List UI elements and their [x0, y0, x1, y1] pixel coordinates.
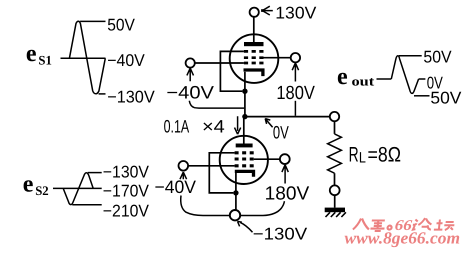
svg-text:0V: 0V	[273, 123, 289, 143]
waveform e_S1	[26, 16, 155, 107]
svg-text:−130V: −130V	[107, 88, 155, 107]
terminal -130V supply (top)	[250, 8, 259, 17]
svg-text:=8Ω: =8Ω	[368, 144, 402, 167]
svg-text:180V: 180V	[276, 83, 315, 104]
V1 plate	[244, 42, 264, 46]
ground	[325, 208, 346, 217]
wire V1 g3 tie to cathode	[220, 51, 244, 91]
wire V1 cathode to output node	[244, 91, 246, 116]
wire output node to RL terminal	[245, 116, 330, 118]
svg-text:e: e	[23, 172, 34, 198]
label -130V (bottom) with arrow	[238, 221, 308, 243]
svg-text:130V: 130V	[275, 4, 317, 23]
svg-text:−40V: −40V	[107, 51, 145, 70]
wire V2 cathode to bottom terminal	[235, 193, 237, 210]
svg-text:S2: S2	[35, 183, 49, 198]
V1 cathode	[244, 70, 263, 76]
watermark line 1	[353, 219, 393, 232]
label 0.1A x4 current annotation	[164, 116, 241, 136]
svg-text:−130V: −130V	[253, 225, 308, 244]
V2 grid g2 (middle row)	[235, 157, 254, 160]
wire -40V terminal to V2 g1	[188, 165, 235, 167]
resistor RL	[328, 121, 342, 185]
svg-text:e: e	[337, 64, 348, 90]
wire V1 cathode lead	[244, 72, 246, 91]
wire V2 g3 tie to cathode	[209, 153, 234, 193]
wire RL bottom terminal to ground	[334, 195, 336, 207]
label RL=8ohm	[349, 144, 401, 167]
svg-text:−130V: −130V	[103, 162, 150, 181]
V2 grid g3 (top row)	[235, 151, 254, 154]
svg-text:R: R	[349, 144, 359, 167]
wire V1 g2 to 180V terminal	[264, 57, 291, 59]
label 0V with arrow	[265, 119, 289, 143]
V2 plate	[236, 144, 253, 148]
junction V1 cathode node	[242, 89, 247, 94]
label 180V (upper) with arrow	[276, 63, 315, 116]
label -40V (upper) with arrow	[166, 68, 244, 108]
svg-text:0.1A: 0.1A	[164, 117, 190, 137]
terminal -130V (bottom)	[230, 210, 240, 220]
svg-text:50V: 50V	[423, 47, 452, 66]
svg-text:www.8ge66.com: www.8ge66.com	[345, 229, 461, 248]
svg-text:S1: S1	[38, 53, 52, 68]
waveform e_out	[337, 47, 462, 107]
junction output node	[242, 114, 247, 119]
tube V1 (upper)	[230, 34, 279, 83]
V2 cathode	[235, 171, 254, 176]
svg-text:×4: ×4	[202, 117, 225, 137]
svg-text:out: out	[352, 74, 376, 89]
terminal 180V screen (upper)	[291, 53, 300, 62]
label -130V (top) with arrow	[261, 4, 317, 23]
label -40V (lower) with arrow	[155, 172, 230, 215]
wire top terminal to V1 plate	[253, 17, 255, 42]
wire -40V terminal to V1 g1	[195, 62, 244, 64]
terminal RL bottom	[330, 185, 340, 195]
svg-text:L: L	[359, 150, 366, 167]
svg-text:−170V: −170V	[103, 182, 150, 201]
svg-text:−210V: −210V	[103, 201, 150, 220]
svg-text:−40V: −40V	[166, 83, 214, 103]
svg-text:50V: 50V	[430, 88, 462, 107]
terminal -40V grid bias (lower)	[179, 161, 189, 171]
svg-text:−40V: −40V	[155, 177, 197, 197]
label 180V (lower) with arrow	[240, 165, 309, 216]
svg-text:50V: 50V	[107, 16, 135, 35]
wire V2 g2 to 180V terminal	[254, 158, 280, 160]
tube V2 (lower)	[220, 136, 268, 184]
V1 grid g1 (bottom row)	[244, 62, 264, 65]
wire output node to V2 plate	[243, 117, 245, 144]
svg-text:e: e	[26, 41, 37, 67]
waveform e_S2	[23, 162, 150, 220]
junction V2 cathode node	[233, 190, 238, 195]
terminal -40V grid bias (upper)	[186, 58, 195, 67]
V1 grid g3 (top row)	[244, 50, 264, 53]
wire V2 cathode lead	[235, 173, 237, 193]
V2 grid g1 (bottom row)	[235, 164, 254, 167]
terminal RL top	[330, 112, 339, 121]
svg-text:180V: 180V	[265, 183, 310, 204]
V1 grid g2 (middle row)	[244, 56, 264, 59]
terminal 180V screen (lower)	[280, 154, 290, 164]
